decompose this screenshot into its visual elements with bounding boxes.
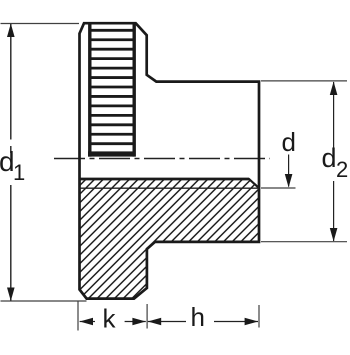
- k left extension line: [77, 301, 79, 331]
- k dimension line right with arrow: [125, 321, 146, 323]
- thread major diameter thin line: [80, 187, 260, 189]
- knurl band right edge: [132, 23, 135, 156]
- d2 top extension line: [261, 80, 347, 82]
- nut outline: [80, 23, 260, 298]
- d1 arrow down: [7, 288, 15, 302]
- section hatch area: [80, 179, 260, 299]
- thread minor diameter (hole edge): [80, 178, 250, 181]
- d2 arrow up: [330, 82, 338, 96]
- svg-text:d: d: [322, 143, 337, 173]
- d dimension line: [288, 155, 290, 187]
- svg-text:1: 1: [13, 160, 25, 185]
- d2 arrow down: [330, 228, 338, 242]
- knurl ridges: [90, 30, 134, 143]
- d1 dimension line upper: [10, 24, 12, 140]
- h right extension line: [258, 305, 260, 328]
- svg-text:2: 2: [336, 157, 348, 182]
- svg-text:d: d: [282, 127, 296, 157]
- h dimension line left with arrow: [148, 321, 186, 323]
- d1 bottom extension line: [1, 300, 87, 302]
- knurl band bottom: [88, 151, 135, 156]
- d1 dimension line lower: [10, 185, 12, 301]
- k dimension line left with arrow: [80, 321, 95, 323]
- centerline (axis): [54, 158, 270, 160]
- h dimension line right with arrow: [214, 321, 258, 323]
- d2 dimension line upper: [333, 82, 335, 148]
- thread countersink chamfer: [249, 179, 260, 189]
- d1 arrow up: [7, 24, 15, 38]
- d2 bottom extension line: [261, 241, 347, 243]
- k/h shared extension line: [146, 304, 148, 329]
- d2 dimension line lower: [333, 181, 335, 241]
- knurl band left edge: [88, 23, 91, 156]
- svg-text:h: h: [191, 302, 205, 332]
- d arrow down: [285, 174, 293, 188]
- d extension line: [261, 187, 296, 189]
- d1 top extension line: [1, 23, 80, 25]
- svg-text:k: k: [103, 304, 117, 334]
